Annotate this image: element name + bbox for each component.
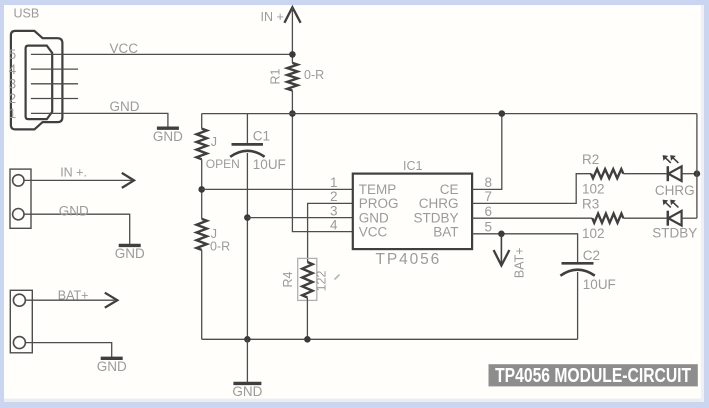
resistor R1: [287, 63, 297, 91]
wire J(0-R) down to bottom rail: [201, 250, 203, 339]
svg-text:R2: R2: [582, 152, 599, 167]
node: GND pin3 junction: [244, 214, 251, 221]
X2 pin 1 circle: [13, 294, 25, 306]
svg-text:C2: C2: [583, 248, 600, 263]
net flag IN+ (arrow up): [284, 7, 300, 23]
svg-text:J: J: [211, 135, 217, 149]
capacitor C2: [562, 262, 594, 265]
svg-text:1: 1: [330, 175, 338, 190]
svg-text:3: 3: [9, 77, 17, 92]
wire right rail vertical: [696, 114, 698, 219]
wire GND from USB pin1: [31, 113, 168, 128]
wire pin7 CHRG to R2: [472, 174, 591, 204]
ground symbol (USB): [157, 126, 179, 129]
node: CHRG right rail junction: [694, 170, 701, 177]
svg-text:102: 102: [582, 226, 605, 241]
wire C2 to bottom rail: [577, 272, 579, 339]
svg-text:4: 4: [9, 62, 17, 77]
wire GND from X2-2: [26, 343, 112, 359]
svg-text:R4: R4: [281, 271, 295, 287]
wire R2 to LED CHRG: [623, 173, 668, 175]
svg-text:VCC: VCC: [359, 224, 388, 239]
X2 pin 2 circle: [13, 337, 25, 349]
svg-text:2: 2: [9, 91, 17, 106]
connector X1 (IN) body: [10, 169, 31, 228]
wire pin5 BAT to C2: [472, 234, 577, 263]
node: R4 joins rail: [304, 336, 311, 343]
wire top rail: [202, 113, 697, 115]
wire pin2 PROG to R4: [308, 203, 353, 262]
svg-text:STDBY: STDBY: [413, 210, 458, 225]
wire down to main ground: [246, 339, 248, 383]
resistor R3: [592, 214, 623, 223]
svg-text:BAT+: BAT+: [58, 288, 89, 302]
resistor R4 box: [298, 258, 317, 300]
LED STDBY: [667, 211, 670, 226]
svg-text:CHRG: CHRG: [655, 183, 695, 198]
wire LED STDBY to right rail: [682, 217, 697, 219]
resistor J (0-R): [197, 219, 207, 250]
svg-text:IN +: IN +: [261, 10, 284, 24]
wire GND from X1-2: [24, 214, 130, 245]
wire pin6 STDBY to R3: [472, 217, 592, 219]
wire rail corner down to J(OPEN): [201, 114, 203, 129]
svg-text:102: 102: [582, 182, 605, 197]
wire R1 bottom to VCC rail and down to IC pin4: [292, 91, 352, 232]
svg-text:GND: GND: [232, 384, 262, 399]
svg-text:6: 6: [485, 204, 493, 219]
svg-text:5: 5: [485, 220, 493, 235]
op IC1 TP4056 body: [353, 174, 472, 250]
svg-text:3: 3: [330, 203, 338, 218]
svg-text:8: 8: [485, 175, 493, 190]
svg-text:TP4056: TP4056: [376, 251, 442, 268]
net flag BAT+ (arrow down): [500, 234, 502, 265]
svg-text:BAT+: BAT+: [512, 247, 526, 278]
LED CHRG: [667, 166, 670, 181]
svg-text:R3: R3: [582, 197, 599, 212]
resistor J (OPEN): [197, 129, 207, 160]
capacitor C1: [232, 143, 264, 146]
wire IN+ down to VCC node: [291, 7, 293, 63]
ground symbol (main): [233, 382, 261, 385]
svg-text:GND: GND: [359, 210, 389, 225]
wire J(OPEN) to J(0-R): [201, 159, 203, 219]
stray tick mark: [335, 275, 340, 280]
connector X2 (BAT) body: [10, 290, 32, 353]
svg-text:USB: USB: [14, 7, 40, 21]
wire C1 bottom to bottom rail: [246, 153, 248, 339]
connector J-USB mini-B outline: [11, 31, 63, 129]
svg-text:BAT: BAT: [433, 224, 458, 239]
wire pin1 TEMP: [202, 188, 353, 190]
X1 pin 1 circle: [13, 175, 24, 186]
svg-text:122: 122: [314, 271, 328, 292]
wire bottom GND rail: [202, 338, 578, 340]
svg-text:10UF: 10UF: [583, 277, 616, 292]
wire pin8 CE up to rail: [472, 114, 502, 190]
svg-text:7: 7: [485, 189, 493, 204]
svg-text:GND: GND: [110, 99, 140, 114]
svg-text:4: 4: [330, 217, 338, 232]
node: BAT junction: [498, 231, 505, 238]
svg-text:VCC: VCC: [110, 41, 139, 56]
wire R4 to bottom rail: [306, 298, 308, 340]
wire LED CHRG to right rail: [682, 173, 697, 175]
node: C1 column joins rail: [244, 336, 251, 343]
USB pin stub wires (pins 4,3,2): [31, 68, 78, 70]
svg-text:STDBY: STDBY: [652, 226, 697, 241]
resistor R4: [302, 262, 312, 298]
node: CE rail junction: [499, 110, 506, 117]
svg-text:5: 5: [9, 47, 17, 62]
wire R3 to LED STDBY: [623, 217, 668, 219]
svg-text:0-R: 0-R: [210, 240, 230, 254]
svg-text:1: 1: [9, 106, 17, 121]
node: VCC junction: [289, 51, 296, 58]
svg-text:GND: GND: [153, 129, 183, 144]
wire rail down to C1: [246, 114, 248, 145]
svg-text:2: 2: [330, 189, 338, 204]
title block: [489, 364, 698, 386]
svg-text:TEMP: TEMP: [359, 182, 397, 197]
svg-text:CE: CE: [440, 182, 459, 197]
svg-text:TP4056 MODULE-CIRCUIT: TP4056 MODULE-CIRCUIT: [495, 364, 691, 387]
wire pin3 GND: [247, 217, 352, 219]
wire VCC from USB pin5 to R1 top node: [31, 53, 293, 55]
svg-text:0-R: 0-R: [304, 68, 324, 82]
node: TEMP net junction: [198, 186, 205, 193]
svg-text:C1: C1: [253, 128, 270, 143]
svg-text:CHRG: CHRG: [419, 196, 459, 211]
svg-text:GND: GND: [115, 246, 145, 261]
svg-text:IC1: IC1: [403, 159, 423, 173]
ground symbol (X2): [101, 357, 123, 360]
wire IN+ with arrow flag: [24, 179, 132, 181]
svg-text:10UF: 10UF: [253, 157, 286, 172]
svg-text:R1: R1: [268, 68, 282, 84]
ground symbol (X1): [119, 244, 141, 247]
node: rail junction at R1: [289, 110, 296, 117]
svg-text:GND: GND: [59, 203, 89, 218]
svg-text:PROG: PROG: [359, 196, 399, 211]
svg-text:GND: GND: [97, 359, 127, 374]
resistor R2: [591, 169, 623, 178]
svg-text:OPEN: OPEN: [206, 157, 240, 171]
wire BAT+ with arrow flag: [26, 299, 115, 301]
svg-text:IN +.: IN +.: [60, 165, 87, 179]
X1 pin 2 circle: [13, 209, 24, 220]
